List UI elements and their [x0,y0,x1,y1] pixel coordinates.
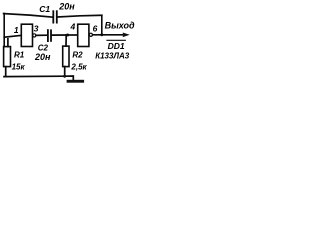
svg-text:К133ЛА3: К133ЛА3 [95,52,130,61]
svg-text:C1: C1 [39,4,50,14]
wire output with arrow [93,33,130,38]
wire top rail right segment [58,15,102,17]
wire C2 to node [52,34,68,36]
label shelf line [107,39,125,41]
svg-text:3: 3 [34,23,39,33]
wire input pin 1 [4,35,21,37]
resistor R1 [4,39,11,77]
capacitor C2 [48,30,51,41]
svg-text:R2: R2 [72,50,83,59]
resistor R2 [63,35,69,76]
wire ground rail bottom [4,76,73,80]
node R2 bottom junction [63,75,66,78]
wire top rail left segment [4,14,53,18]
svg-text:20н: 20н [34,52,51,62]
svg-text:2,5к: 2,5к [70,62,87,71]
svg-text:15к: 15к [12,62,26,71]
svg-text:6: 6 [93,24,98,34]
svg-text:4: 4 [70,22,76,32]
svg-text:Выход: Выход [105,20,135,30]
wire gate1 output [36,34,47,36]
capacitor C1 [53,11,57,22]
svg-text:R1: R1 [14,50,25,59]
node output junction [100,33,103,36]
op-amp U2 gate DD1.2 [78,24,93,46]
ground [67,80,85,83]
op-amp U1 gate DD1.1 [21,24,36,46]
wire feedback vertical [101,15,103,35]
node R2 top junction [66,34,69,37]
svg-text:DD1: DD1 [108,41,125,51]
svg-text:20н: 20н [58,2,75,12]
wire left rail vertical [3,14,5,47]
svg-text:1: 1 [14,25,19,35]
wire node to pin 4 [68,34,78,36]
